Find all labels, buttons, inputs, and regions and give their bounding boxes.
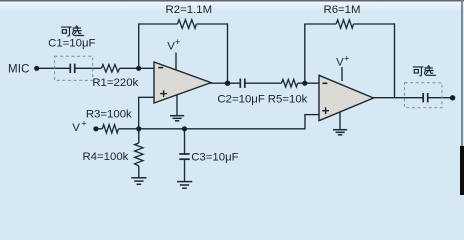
node output dot: [450, 95, 455, 100]
wire bias step vertical: [304, 115, 306, 130]
resistor R3 100k zigzag: [102, 125, 118, 133]
resistor R4 100k vertical zigzag: [135, 143, 143, 166]
node A junction dot (R1/R2/U1-): [136, 66, 141, 71]
node U1 output junction dot: [225, 81, 230, 86]
svg-text:C1=10μF: C1=10μF: [48, 38, 95, 50]
svg-text:+: +: [175, 37, 181, 48]
node bias junction 2 dot: [182, 126, 187, 131]
resistor R2 1.1M zigzag: [177, 20, 196, 29]
wire feedback 1 top right segment: [196, 23, 227, 25]
wire U2 output to optional capacitor: [373, 97, 424, 99]
label 可选 (right): [413, 66, 435, 76]
wire feedback 1 top left segment: [138, 23, 177, 25]
wire R3 to bias node 1: [119, 128, 139, 130]
wire U1 ground lead: [176, 95, 178, 116]
op-amp U1: [154, 62, 211, 103]
op-amp U2 inverting pin label: [322, 82, 327, 84]
wire bias step to U2 non-inverting input: [304, 114, 319, 116]
resistor R1 220k zigzag: [101, 65, 119, 73]
wire U1 V+ power lead: [175, 53, 177, 72]
svg-text:R5=10k: R5=10k: [268, 94, 308, 106]
wire V+ bias dot to R3: [97, 128, 102, 130]
wire bias node2 down to C3: [184, 129, 186, 154]
resistor R5 10k zigzag: [282, 79, 298, 87]
capacitor C3 plates: [179, 154, 189, 159]
wire C1 to R1: [75, 67, 102, 69]
capacitor C2 plates: [240, 79, 245, 88]
resistor R6 1M zigzag: [336, 20, 353, 28]
svg-text:V: V: [336, 57, 344, 69]
svg-text:C3=10μF: C3=10μF: [191, 151, 238, 163]
ground for C3: [177, 182, 192, 189]
svg-text:R2=1.1M: R2=1.1M: [166, 4, 213, 16]
wire feedback 1 vertical down to U1 output node: [227, 23, 229, 83]
svg-text:MIC: MIC: [8, 64, 30, 76]
wire U1 output to C2: [210, 82, 240, 84]
svg-text:R4=100k: R4=100k: [82, 151, 128, 163]
wire MIC to C1: [39, 67, 71, 69]
capacitor optional output plates: [423, 93, 428, 102]
svg-text:R1=220k: R1=220k: [92, 77, 138, 89]
wire feedback 2 top left segment: [304, 23, 336, 25]
wire bias node1 down to R4: [138, 129, 140, 143]
ground for R4: [131, 178, 146, 185]
wire C2 to R5: [245, 82, 282, 84]
wire bias rail node2 to step: [185, 128, 306, 130]
right edge black strip: [460, 146, 464, 195]
op-amp U1 inverting pin label: [158, 67, 163, 69]
ground for U1: [170, 116, 184, 121]
op-amp U2: [319, 75, 374, 120]
svg-text:C2=10μF: C2=10μF: [217, 94, 264, 106]
wire feedback 1 vertical up from node A: [138, 24, 140, 68]
wire bias rail node1 to node2: [139, 128, 185, 130]
wire bias node1 up to U1 non-inverting level: [138, 97, 140, 129]
wire feedback 2 vertical down to output wire: [394, 23, 396, 97]
wire R4 to ground: [138, 166, 140, 178]
op-amp U2 non-inverting pin label: [322, 107, 329, 114]
node bias junction 1 dot: [136, 126, 141, 131]
node MIC input dot: [34, 66, 39, 71]
wire U2 ground lead: [339, 112, 341, 130]
wire feedback 2 top right segment: [354, 23, 395, 25]
ground for U2: [333, 130, 347, 135]
wire to U1 non-inverting input: [138, 96, 154, 98]
op-amp U1 non-inverting pin label: [160, 90, 167, 97]
node V+ bias dot: [93, 126, 98, 131]
optional output cap dashed box: [405, 83, 443, 108]
svg-text:R3=100k: R3=100k: [86, 109, 132, 121]
wire optional capacitor to output node: [428, 97, 453, 99]
svg-text:V: V: [72, 122, 80, 134]
optional C1 dashed box: [55, 56, 93, 80]
svg-text:+: +: [344, 53, 350, 64]
wire feedback 2 vertical up from node B: [304, 24, 306, 83]
wire U2 V+ power lead: [341, 67, 343, 81]
label 可选 (left): [61, 26, 83, 36]
wire R5 to U2 inverting input (node B): [298, 82, 319, 84]
node B junction dot (R5/R6/U2-): [302, 81, 307, 86]
right edge scrollbar line: [461, 0, 462, 148]
wire C3 to ground: [184, 159, 186, 181]
capacitor C1 plates: [70, 64, 74, 73]
svg-text:R6=1M: R6=1M: [323, 4, 360, 16]
wire R1 to U1 inverting input (node A): [120, 67, 155, 69]
